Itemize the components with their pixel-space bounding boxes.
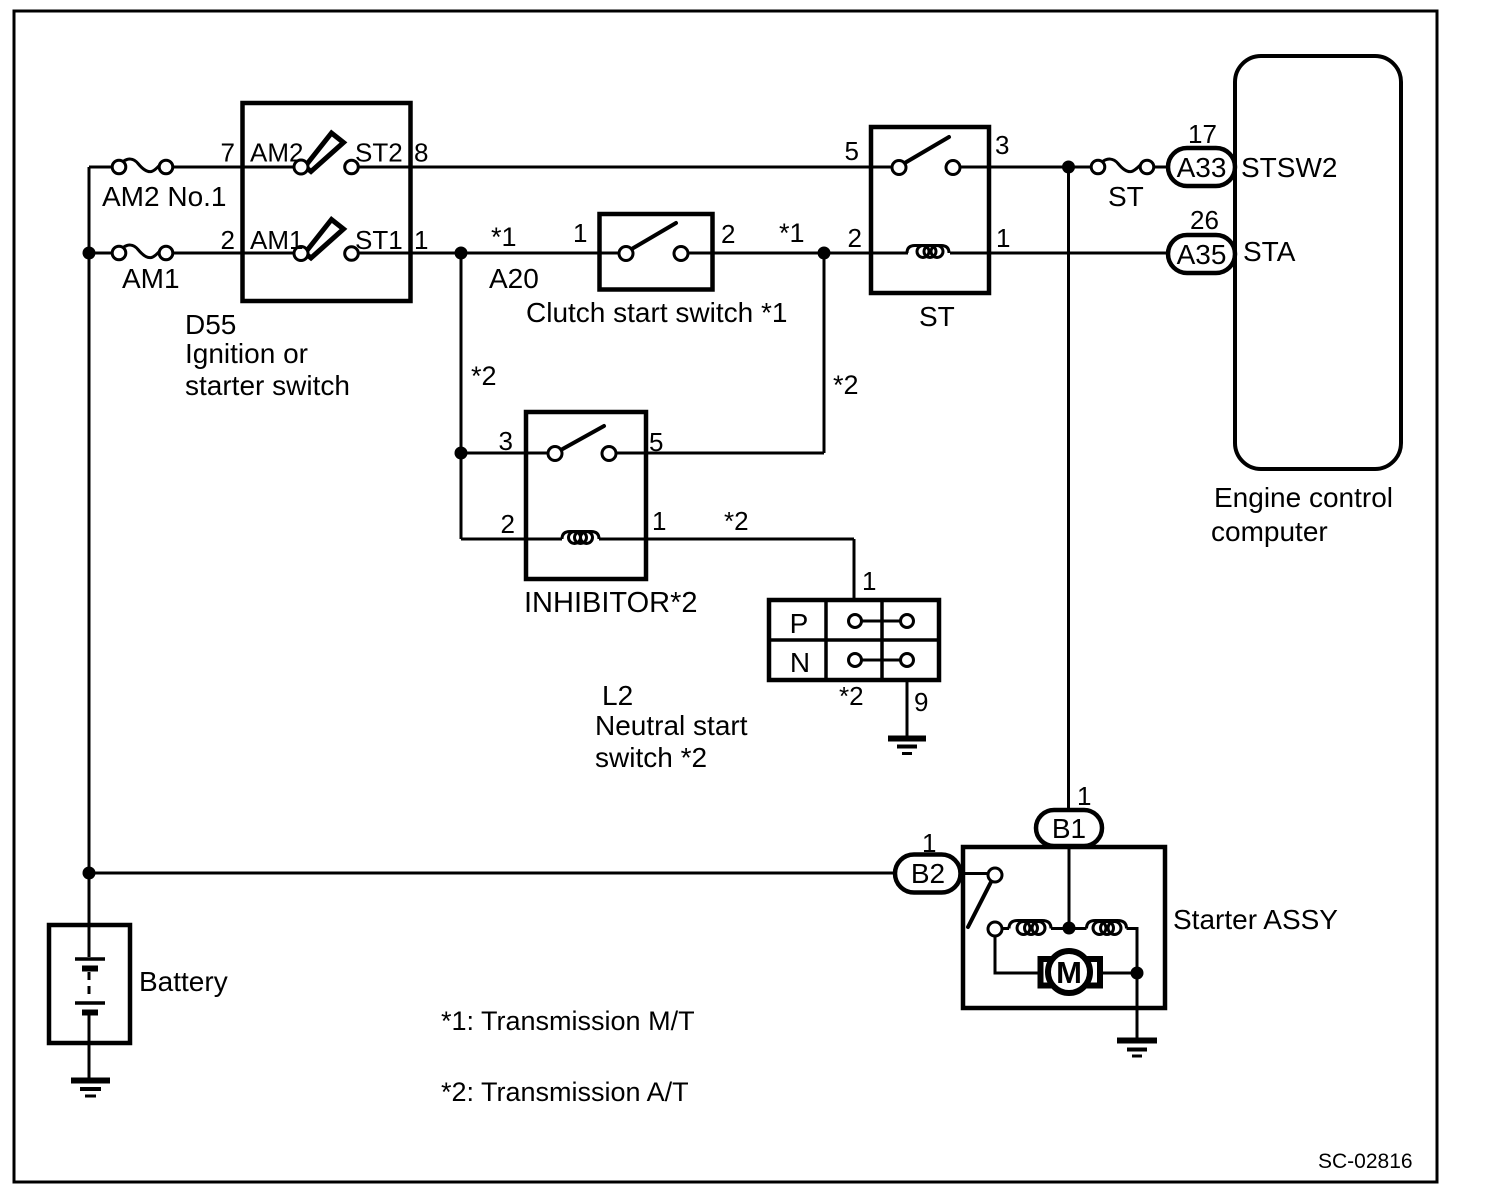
svg-text:ST2: ST2 (355, 138, 403, 168)
svg-text:A35: A35 (1177, 239, 1227, 270)
svg-text:1: 1 (414, 225, 428, 255)
box starter ASSY (963, 847, 1165, 1008)
wire fuse to D55 pivot (173, 166, 294, 169)
wire coil input stub (1002, 927, 1009, 930)
fuse AM1 terminals (112, 246, 126, 260)
battery cell plate short 1 (82, 966, 98, 972)
svg-text:9: 9 (914, 687, 928, 717)
svg-text:1: 1 (996, 223, 1010, 253)
svg-text:Clutch start switch *1: Clutch start switch *1 (526, 297, 787, 328)
L2 ground symbol (888, 739, 926, 754)
svg-text:Battery: Battery (139, 966, 228, 997)
fuse ST terminals (1091, 160, 1105, 174)
switch contact ST2 (345, 160, 359, 174)
wire left vertical bus (88, 167, 91, 925)
junction node inhibitor pin3 (455, 447, 468, 460)
starter ground symbol (1117, 1041, 1157, 1057)
L2 contact P row (849, 615, 914, 628)
wire AM1 feed left (89, 252, 112, 255)
svg-text:1: 1 (922, 828, 936, 858)
inhibitor switch contact (602, 447, 616, 461)
svg-text:M: M (1056, 955, 1082, 990)
wire starter to ground (1136, 973, 1139, 1040)
ST relay coil (907, 246, 949, 258)
ST relay switch pivot (892, 161, 906, 175)
svg-text:*1: Transmission M/T: *1: Transmission M/T (441, 1006, 695, 1036)
svg-text:Ignition or: Ignition or (185, 338, 308, 369)
svg-text:switch *2: switch *2 (595, 742, 707, 773)
starter solenoid switch blade (968, 881, 992, 927)
svg-text:A33: A33 (1177, 152, 1227, 183)
svg-text:5: 5 (845, 136, 859, 166)
battery wire top (88, 925, 91, 957)
svg-text:5: 5 (649, 427, 663, 457)
wire ST junction down to B1 (1067, 167, 1070, 810)
svg-text:3: 3 (995, 130, 1009, 160)
svg-text:N: N (790, 647, 810, 678)
clutch switch pivot (619, 247, 633, 261)
wire inhibitor pin 5 out (616, 452, 824, 455)
svg-text:ST: ST (1108, 181, 1144, 212)
wire L2 to ground (906, 680, 909, 737)
L2 divider horizontal (769, 638, 939, 642)
svg-text:*1: *1 (779, 218, 805, 248)
wire relay out to fuse ST (960, 166, 1091, 169)
junction node motor right (1131, 967, 1144, 980)
wire starter left branch to motor (995, 936, 1040, 973)
svg-text:3: 3 (499, 426, 513, 456)
wire inhibitor pin 1 out (599, 538, 854, 541)
svg-text:AM2 No.1: AM2 No.1 (102, 181, 227, 212)
wire to inhibitor pin 3 (461, 452, 548, 455)
battery dashed link (88, 972, 91, 1000)
wire coil2 to motor right (1127, 929, 1138, 974)
svg-text:STSW2: STSW2 (1241, 152, 1337, 183)
wire battery to B2 (89, 872, 896, 875)
svg-text:AM1: AM1 (122, 263, 180, 294)
svg-text:A20: A20 (489, 263, 539, 294)
wire AM2 feed left (89, 166, 112, 169)
wire B2 to starter switch (960, 872, 989, 875)
box D55 ignition or starter switch (243, 103, 411, 301)
svg-text:2: 2 (221, 225, 235, 255)
battery cell plate long 1 (75, 957, 105, 961)
svg-text:*2: *2 (471, 361, 497, 391)
wire fuse ST to A33 (1154, 166, 1168, 169)
fuse AM2 No.1 terminals (112, 160, 126, 174)
junction node AM1-left bus (83, 247, 96, 260)
wire battery to ground (88, 1014, 91, 1080)
connector B2 (895, 855, 961, 893)
box engine control computer (1235, 56, 1401, 469)
inhibitor switch pivot (548, 447, 562, 461)
svg-text:ST: ST (919, 301, 955, 332)
svg-text:17: 17 (1188, 119, 1217, 149)
svg-text:B2: B2 (911, 858, 945, 889)
fuse ST wave (1102, 159, 1143, 172)
wire branch down to inhibitor (460, 253, 463, 539)
motor M frame (1041, 959, 1101, 986)
switch contact ST1 (345, 247, 359, 261)
wire ST1 to clutch switch (359, 252, 620, 255)
battery ground symbol (71, 1081, 110, 1097)
inhibitor switch blade (559, 426, 604, 451)
motor M circle (1048, 951, 1090, 993)
connector A35 (1168, 235, 1235, 273)
junction node ST out (1062, 161, 1075, 174)
junction node starter coil (1063, 922, 1076, 935)
svg-text:2: 2 (501, 509, 515, 539)
svg-text:*2: *2 (833, 370, 859, 400)
wire ST2 to ST relay (359, 166, 893, 169)
box battery (49, 925, 130, 1043)
L2 divider vertical 2 (880, 600, 884, 680)
box ST relay (871, 127, 989, 293)
connector B1 (1036, 810, 1102, 846)
svg-text:B1: B1 (1052, 813, 1086, 844)
wire down to neutral start switch (853, 539, 856, 600)
svg-text:INHIBITOR*2: INHIBITOR*2 (524, 587, 698, 619)
svg-text:STA: STA (1243, 236, 1296, 267)
switch pivot AM2 (294, 160, 308, 174)
wire between starter coils (1051, 927, 1087, 930)
battery cell plate long 2 (75, 1001, 105, 1005)
junction node clutch branch (455, 247, 468, 260)
starter solenoid switch contact (988, 868, 1002, 882)
svg-text:*1: *1 (491, 222, 517, 252)
svg-text:7: 7 (221, 138, 235, 168)
switch blade AM1 (305, 220, 344, 259)
svg-text:Engine control: Engine control (1214, 482, 1393, 513)
svg-text:*2: Transmission A/T: *2: Transmission A/T (441, 1077, 689, 1107)
svg-text:P: P (790, 608, 809, 639)
wire to inhibitor pin 2 (461, 538, 562, 541)
svg-text:1: 1 (652, 506, 666, 536)
starter coil 1 (1009, 921, 1051, 935)
svg-text:Starter ASSY: Starter ASSY (1173, 904, 1338, 935)
svg-text:26: 26 (1190, 205, 1219, 235)
fuse AM1 wave (122, 245, 162, 258)
wire relay coil to A35 (950, 252, 1168, 255)
svg-text:*2: *2 (839, 681, 864, 711)
junction node battery bus (83, 867, 96, 880)
clutch switch blade (630, 223, 676, 250)
svg-text:1: 1 (573, 218, 587, 248)
wire up to AM1 line junction (823, 253, 826, 453)
svg-text:1: 1 (862, 566, 876, 596)
inhibitor coil (562, 532, 599, 544)
svg-text:computer: computer (1211, 516, 1328, 547)
svg-text:SC-02816: SC-02816 (1318, 1150, 1413, 1173)
svg-text:starter switch: starter switch (185, 370, 350, 401)
svg-text:*2: *2 (724, 506, 749, 536)
L2 contact N row (849, 654, 914, 667)
starter coil 2 (1087, 921, 1127, 935)
clutch switch contact (674, 247, 688, 261)
fuse AM2 No.1 wave (122, 159, 162, 172)
svg-text:2: 2 (848, 223, 862, 253)
svg-text:D55: D55 (185, 309, 236, 340)
switch blade AM2 (305, 133, 344, 172)
box inhibitor relay (526, 412, 646, 579)
ST relay switch blade (903, 137, 949, 164)
starter coil input terminal (988, 922, 1002, 936)
L2 divider vertical 1 (824, 600, 828, 680)
svg-text:ST1: ST1 (355, 225, 403, 255)
wire motor right to junction (1100, 972, 1137, 975)
ST relay switch contact (946, 161, 960, 175)
svg-text:8: 8 (414, 138, 428, 168)
box L2 neutral start switch (769, 600, 939, 680)
switch pivot AM1 (294, 247, 308, 261)
wire fuse AM1 to D55 (173, 252, 294, 255)
svg-text:2: 2 (721, 219, 735, 249)
svg-text:1: 1 (1077, 781, 1091, 811)
box A20 clutch start switch (600, 214, 713, 290)
junction node inhibitor return (818, 247, 831, 260)
svg-text:Neutral start: Neutral start (595, 710, 748, 741)
svg-text:AM1: AM1 (250, 225, 303, 255)
battery cell plate short 2 (82, 1010, 98, 1016)
svg-text:L2: L2 (602, 680, 633, 711)
wire clutch switch to ST relay coil (688, 252, 908, 255)
wire B1 down into starter (1068, 846, 1071, 928)
connector A33 (1168, 148, 1235, 186)
svg-text:AM2: AM2 (250, 138, 303, 168)
